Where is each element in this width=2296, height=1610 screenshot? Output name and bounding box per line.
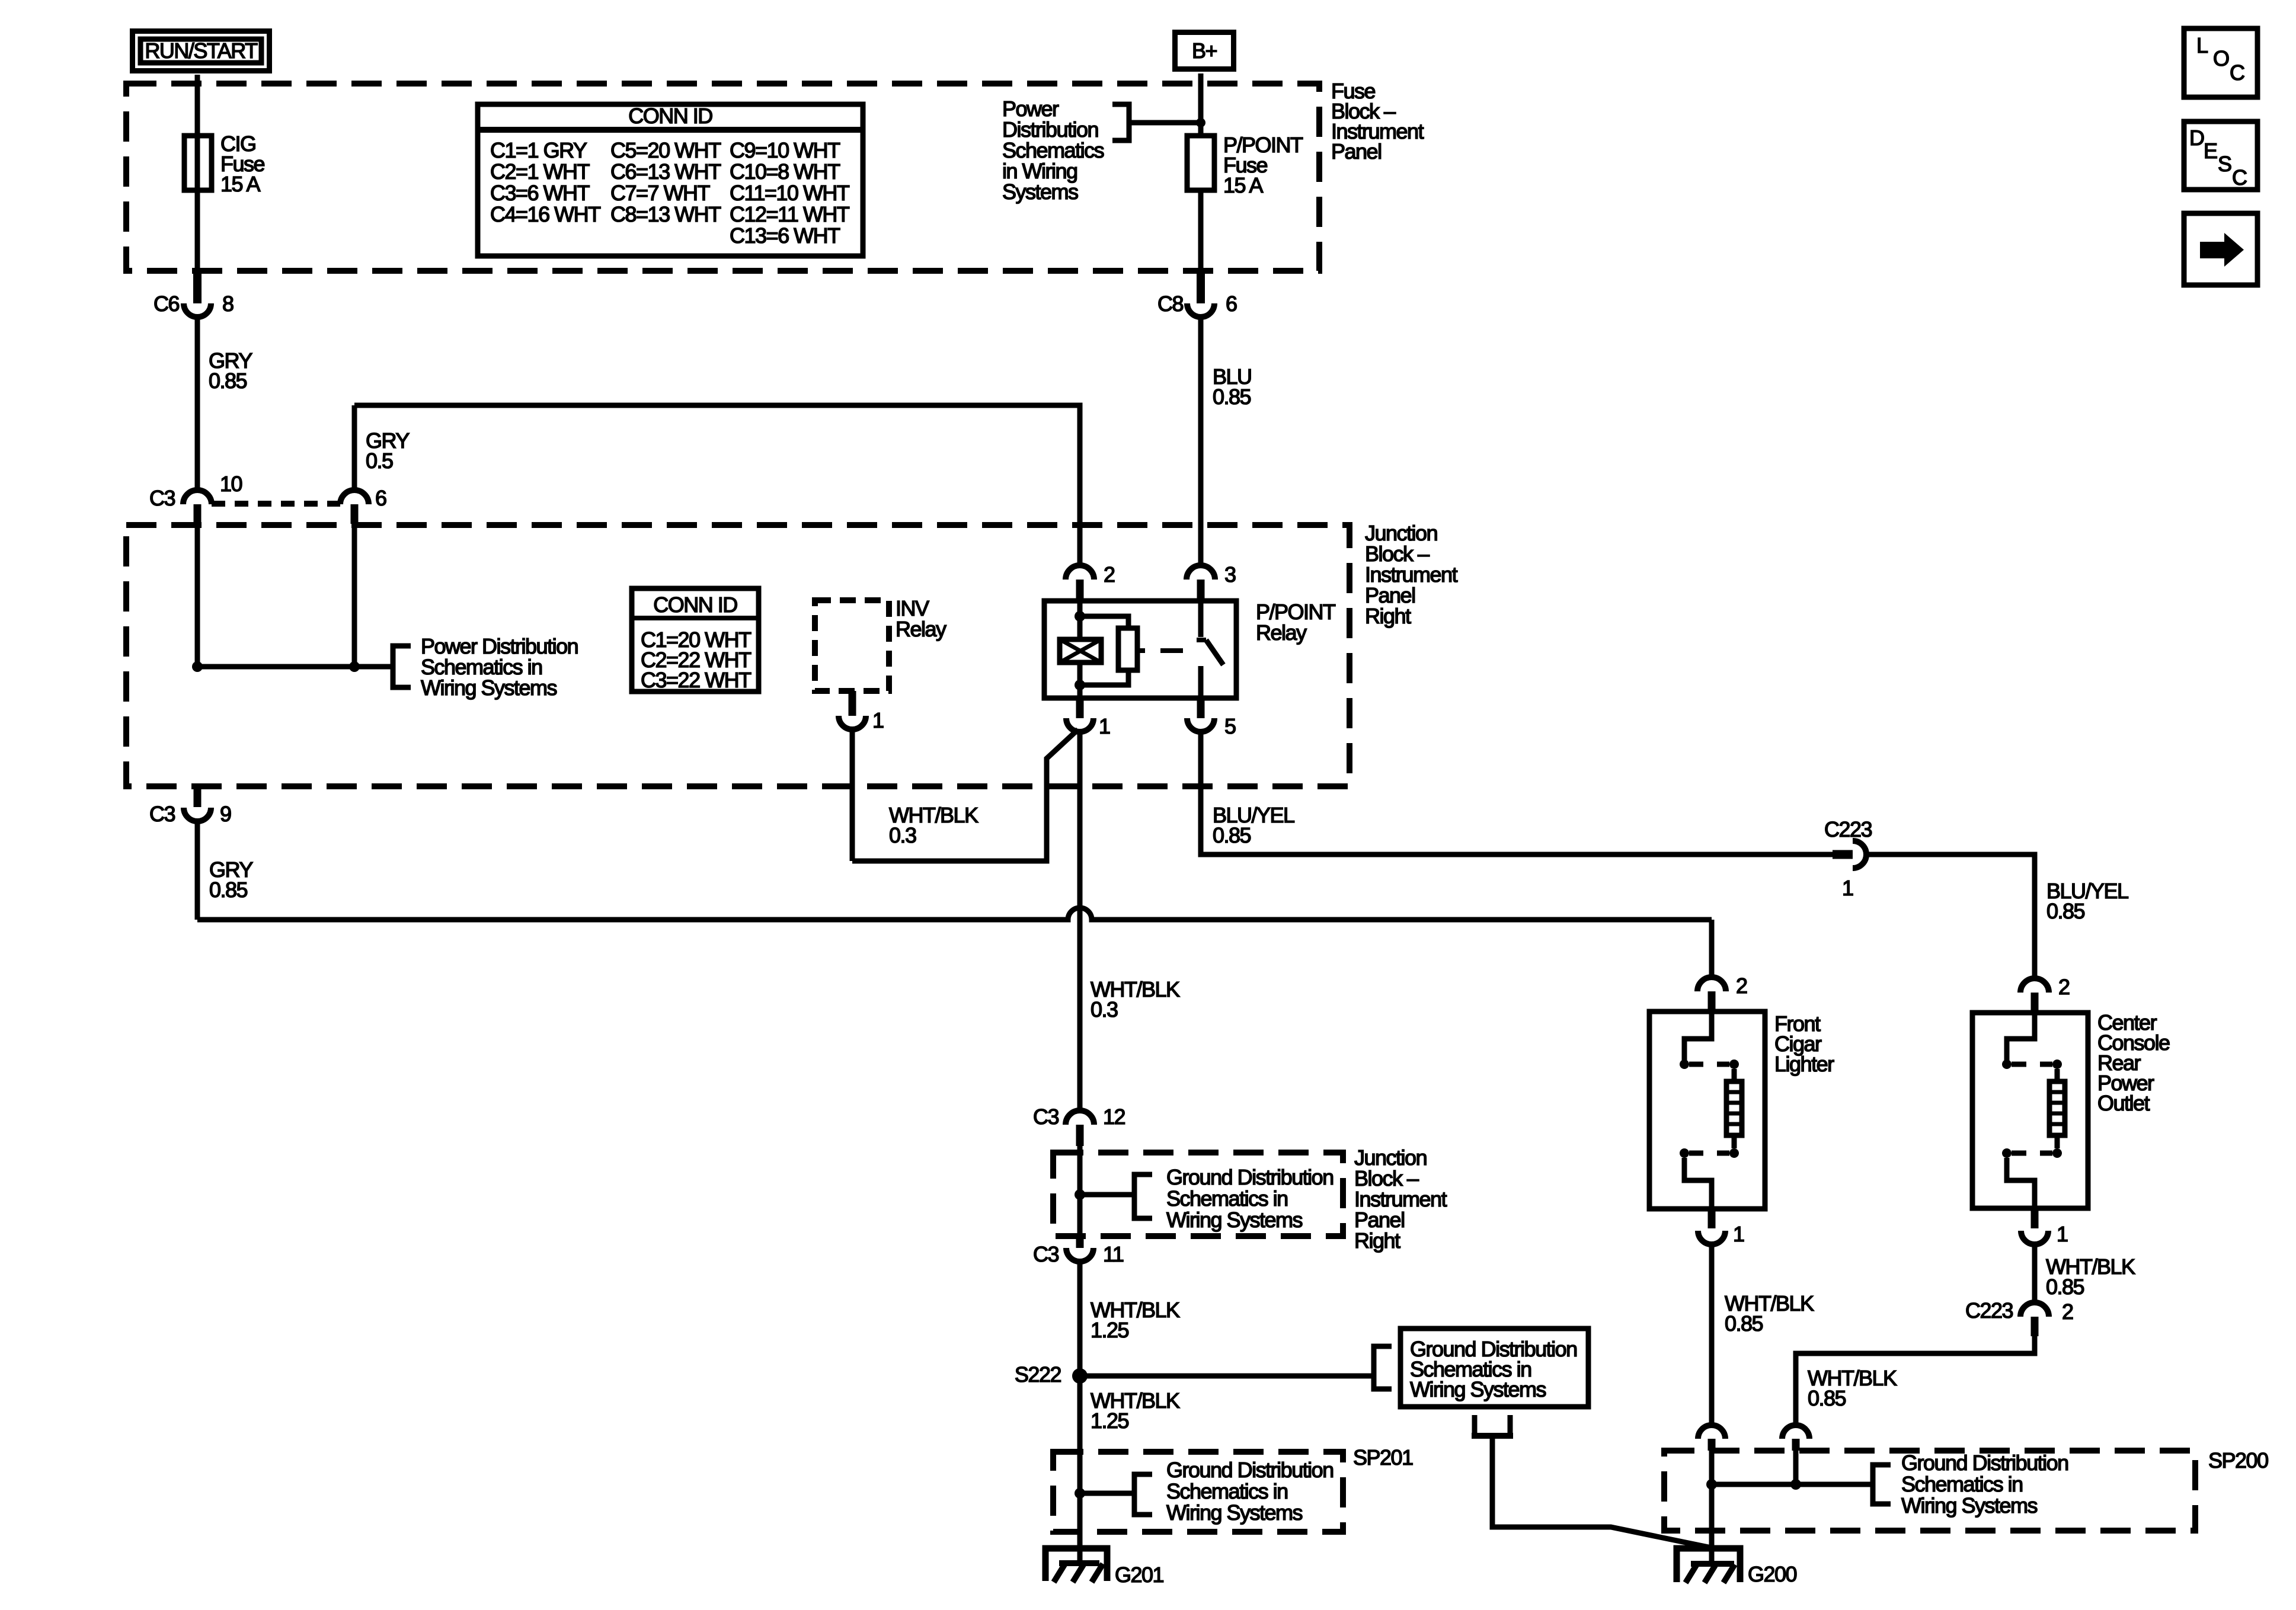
svg-text:15 A: 15 A xyxy=(220,172,261,196)
svg-text:11: 11 xyxy=(1103,1242,1124,1266)
svg-text:Wiring Systems: Wiring Systems xyxy=(1166,1500,1303,1525)
svg-text:C223: C223 xyxy=(1824,817,1872,841)
svg-text:15 A: 15 A xyxy=(1223,173,1264,197)
svg-text:G200: G200 xyxy=(1748,1562,1797,1586)
svg-text:1.25: 1.25 xyxy=(1091,1409,1129,1433)
svg-text:0.85: 0.85 xyxy=(1808,1386,1846,1410)
svg-text:12: 12 xyxy=(1103,1105,1125,1129)
svg-text:3: 3 xyxy=(1224,562,1236,587)
svg-text:0.85: 0.85 xyxy=(209,369,247,393)
svg-text:C11=10 WHT: C11=10 WHT xyxy=(730,181,850,205)
svg-text:C12=11 WHT: C12=11 WHT xyxy=(730,202,850,226)
svg-text:0.85: 0.85 xyxy=(2046,1275,2084,1299)
svg-text:0.85: 0.85 xyxy=(2046,899,2085,923)
svg-text:Relay: Relay xyxy=(896,617,946,641)
svg-text:0.85: 0.85 xyxy=(1725,1311,1763,1336)
svg-text:2: 2 xyxy=(2058,975,2070,999)
svg-text:C223: C223 xyxy=(1965,1298,2013,1323)
svg-text:SP201: SP201 xyxy=(1353,1445,1413,1470)
svg-text:S: S xyxy=(2218,152,2231,176)
svg-text:Outlet: Outlet xyxy=(2097,1091,2150,1115)
svg-text:C8: C8 xyxy=(1157,292,1183,316)
svg-text:Wiring Systems: Wiring Systems xyxy=(421,676,557,700)
svg-text:Right: Right xyxy=(1354,1228,1400,1253)
svg-text:E: E xyxy=(2204,139,2217,163)
svg-text:Wiring Systems: Wiring Systems xyxy=(1410,1377,1546,1401)
svg-text:B+: B+ xyxy=(1192,39,1217,63)
svg-text:C3=6 WHT: C3=6 WHT xyxy=(490,181,590,205)
svg-text:Right: Right xyxy=(1365,604,1411,628)
svg-text:1: 1 xyxy=(2057,1222,2068,1246)
svg-text:10: 10 xyxy=(220,472,242,496)
svg-text:C3: C3 xyxy=(1033,1105,1059,1129)
svg-text:0.3: 0.3 xyxy=(1091,997,1118,1022)
svg-text:C10=8 WHT: C10=8 WHT xyxy=(730,159,840,184)
svg-text:C3: C3 xyxy=(1033,1242,1059,1266)
svg-text:L: L xyxy=(2196,33,2208,57)
svg-text:CONN ID: CONN ID xyxy=(653,593,737,617)
svg-text:0.85: 0.85 xyxy=(1213,823,1251,847)
svg-text:Systems: Systems xyxy=(1002,180,1078,204)
svg-text:C: C xyxy=(2232,165,2247,190)
svg-text:C13=6 WHT: C13=6 WHT xyxy=(730,223,840,248)
svg-text:S222: S222 xyxy=(1015,1362,1061,1387)
svg-text:C3: C3 xyxy=(149,486,175,510)
svg-text:Ground Distribution: Ground Distribution xyxy=(1901,1451,2068,1475)
svg-text:1: 1 xyxy=(1733,1222,1744,1246)
svg-text:1: 1 xyxy=(1099,714,1110,738)
svg-text:C6: C6 xyxy=(154,292,179,316)
svg-text:G201: G201 xyxy=(1115,1563,1164,1587)
svg-text:1: 1 xyxy=(872,708,884,732)
svg-text:RUN/START: RUN/START xyxy=(145,39,258,63)
svg-text:0.85: 0.85 xyxy=(1213,385,1251,409)
svg-text:Lighter: Lighter xyxy=(1774,1052,1834,1076)
svg-text:2: 2 xyxy=(2062,1299,2073,1324)
svg-text:5: 5 xyxy=(1224,714,1236,738)
svg-text:C9=10 WHT: C9=10 WHT xyxy=(730,138,840,162)
svg-text:Schematics in: Schematics in xyxy=(1166,1479,1288,1503)
svg-text:SP200: SP200 xyxy=(2208,1448,2268,1473)
svg-text:CONN ID: CONN ID xyxy=(628,104,712,128)
svg-text:6: 6 xyxy=(375,486,386,510)
svg-text:C6=13 WHT: C6=13 WHT xyxy=(610,159,721,184)
svg-text:C3=22 WHT: C3=22 WHT xyxy=(641,668,752,692)
svg-text:D: D xyxy=(2189,126,2204,150)
svg-text:Wiring Systems: Wiring Systems xyxy=(1901,1493,2038,1518)
svg-text:C8=13 WHT: C8=13 WHT xyxy=(610,202,721,226)
svg-text:Panel: Panel xyxy=(1331,139,1382,164)
svg-text:Ground Distribution: Ground Distribution xyxy=(1166,1458,1334,1482)
svg-text:Schematics in: Schematics in xyxy=(1901,1472,2023,1496)
svg-text:C1=1 GRY: C1=1 GRY xyxy=(490,138,587,162)
svg-text:8: 8 xyxy=(222,292,234,316)
svg-text:0.5: 0.5 xyxy=(366,449,393,473)
svg-text:9: 9 xyxy=(220,802,231,826)
svg-text:1.25: 1.25 xyxy=(1091,1318,1129,1342)
svg-text:1: 1 xyxy=(1842,876,1853,900)
svg-text:Wiring Systems: Wiring Systems xyxy=(1166,1208,1303,1232)
svg-text:2: 2 xyxy=(1736,974,1747,998)
svg-text:0.85: 0.85 xyxy=(209,878,248,902)
svg-text:C5=20 WHT: C5=20 WHT xyxy=(610,138,721,162)
svg-text:C2=1 WHT: C2=1 WHT xyxy=(490,159,590,184)
svg-text:6: 6 xyxy=(1226,292,1237,316)
svg-text:C3: C3 xyxy=(149,802,175,826)
svg-text:0.3: 0.3 xyxy=(889,823,916,847)
svg-text:Ground Distribution: Ground Distribution xyxy=(1166,1165,1334,1189)
svg-text:C4=16 WHT: C4=16 WHT xyxy=(490,202,601,226)
svg-text:Relay: Relay xyxy=(1256,620,1307,645)
svg-text:O: O xyxy=(2213,46,2229,71)
svg-text:Schematics in: Schematics in xyxy=(1166,1186,1288,1211)
svg-text:C: C xyxy=(2230,60,2244,85)
svg-text:C7=7 WHT: C7=7 WHT xyxy=(610,181,711,205)
svg-text:2: 2 xyxy=(1104,562,1115,587)
